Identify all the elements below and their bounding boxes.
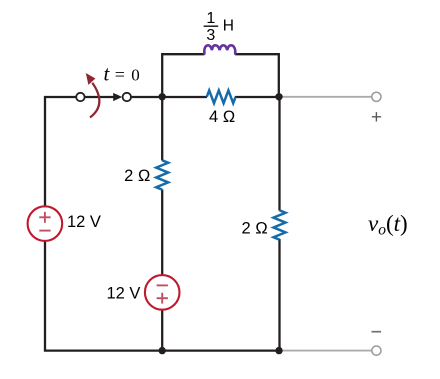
wire: 4-ohm resistor to right node [235, 96, 280, 98]
svg-text:4 Ω: 4 Ω [209, 108, 235, 126]
svg-text:vo(t): vo(t) [368, 211, 408, 239]
label: + output polarity [372, 112, 381, 121]
switch motion arc (dark red) with arrowhead [90, 83, 99, 118]
svg-text:3: 3 [206, 27, 215, 44]
label: - output polarity [372, 331, 382, 333]
wire: center node to 4-ohm resistor [162, 96, 207, 98]
wire: inductor loop (left riser, top runs, right riser) [162, 54, 279, 97]
wire: right branch vertical [278, 97, 280, 351]
svg-text:1: 1 [206, 10, 215, 27]
node: right top junction [275, 93, 282, 100]
wire: switch blade with arrowhead [84, 96, 118, 98]
switch contact circle (left) [76, 93, 84, 101]
resistor 2 ohm right (vertical zigzag) [274, 210, 286, 239]
wire: gray lead to bottom output terminal [279, 350, 372, 352]
svg-text:12 V: 12 V [107, 285, 141, 303]
label: 1/3 H [204, 10, 234, 44]
wire: left branch (top run, left vertical, bottom run) [45, 97, 280, 351]
wire: gray lead to top output terminal [279, 96, 372, 98]
node: center top junction [159, 93, 166, 100]
resistor 4 ohm (horizontal zigzag) [207, 90, 236, 103]
svg-text:2 Ω: 2 Ω [124, 167, 150, 185]
resistor 2 ohm middle (vertical zigzag) [156, 160, 168, 189]
terminal (top, open circle) [372, 92, 381, 101]
voltage source V2 12V (middle, circle with - over +) [145, 275, 180, 310]
svg-text:t=0: t=0 [104, 62, 140, 86]
wire: middle branch vertical (node to resistor, resistor to source, source to bottom) [161, 97, 163, 351]
voltage source V1 12V (left, circle with + over -) [28, 206, 63, 241]
svg-text:12 V: 12 V [67, 213, 101, 231]
svg-text:2 Ω: 2 Ω [242, 220, 268, 238]
switch contact circle (right) [123, 93, 131, 101]
wire: from right switch contact to center node [131, 96, 163, 98]
inductor L (1/3 H coil) [204, 45, 235, 53]
svg-text:H: H [223, 18, 234, 35]
terminal (bottom, open circle) [372, 346, 381, 355]
node: right bottom junction [275, 347, 282, 354]
node: middle bottom junction [159, 347, 166, 354]
